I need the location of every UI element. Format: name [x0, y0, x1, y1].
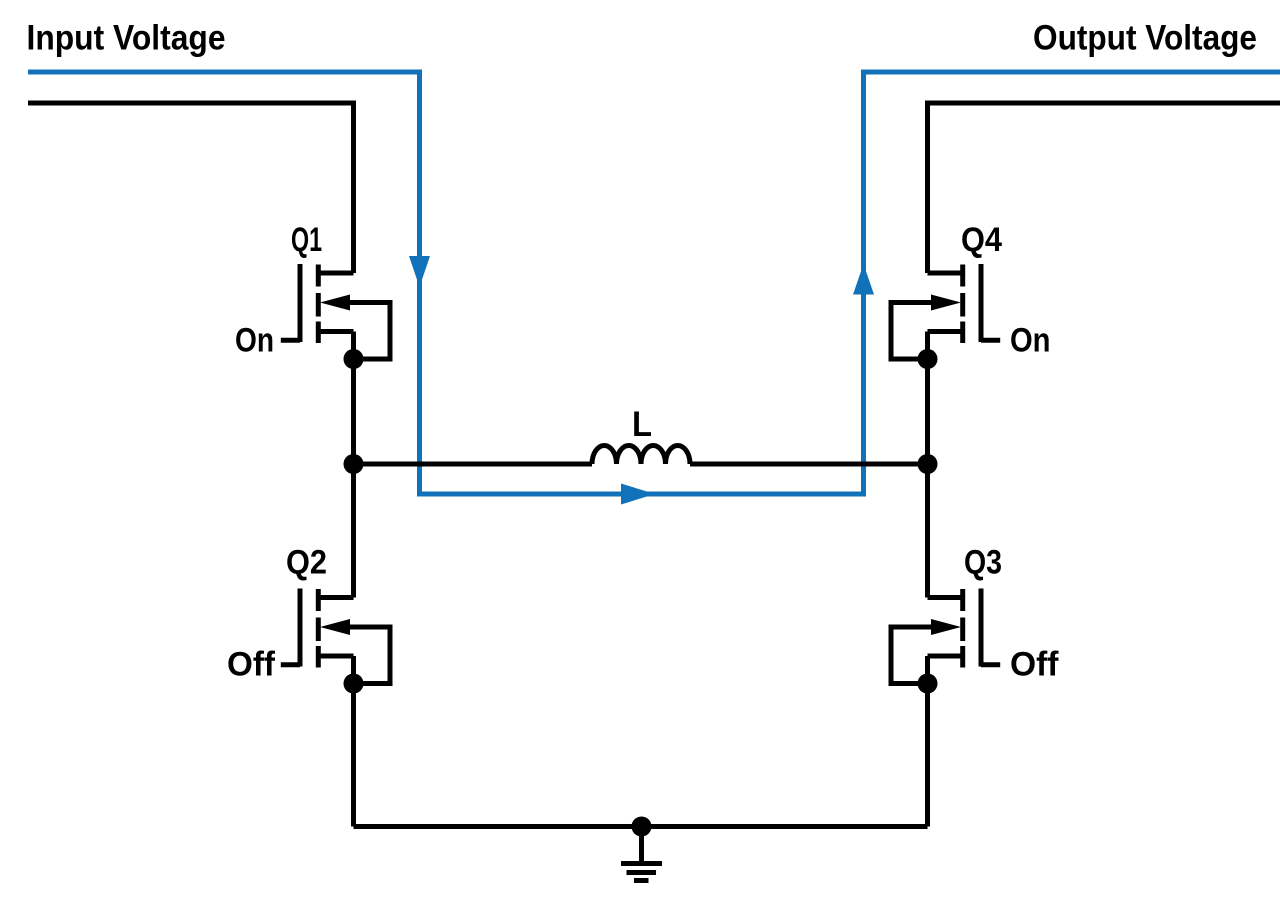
wire Q2 source to ground rail — [351, 656, 356, 827]
arrowhead current right (through inductor) — [621, 484, 655, 505]
junction node SW-right — [918, 454, 938, 474]
wire blue current path (input to output) — [28, 72, 1280, 494]
wire Q3 source to ground rail — [925, 656, 930, 827]
wire ground rail — [354, 824, 928, 829]
ground — [621, 827, 662, 881]
wire input voltage rail — [28, 103, 354, 273]
wire switch node left (Q1 source to Q2 drain) — [351, 332, 356, 598]
svg-text:Input Voltage: Input Voltage — [27, 19, 226, 58]
svg-text:Output Voltage: Output Voltage — [1033, 19, 1257, 58]
wire inductor right lead — [690, 462, 928, 467]
svg-text:On: On — [1010, 322, 1051, 360]
wire switch node right (Q4 source to Q3 drain) — [925, 332, 930, 598]
svg-text:On: On — [235, 322, 274, 360]
svg-text:Q3: Q3 — [964, 544, 1002, 582]
svg-text:Q1: Q1 — [291, 221, 322, 259]
svg-text:Off: Off — [1010, 646, 1059, 684]
transistor Q2 — [281, 589, 390, 694]
junction node SW-left — [344, 454, 364, 474]
junction node ground — [632, 817, 652, 837]
svg-text:Off: Off — [227, 646, 276, 684]
transistor Q1 — [281, 264, 390, 369]
svg-text:L: L — [632, 405, 652, 444]
wire inductor left lead — [354, 462, 593, 467]
inductor L — [592, 446, 690, 465]
arrowhead current down (left branch) — [409, 256, 430, 287]
transistor Q3 — [891, 589, 1000, 694]
transistor Q4 — [891, 264, 1000, 369]
wire output voltage rail — [928, 103, 1280, 273]
svg-text:Q2: Q2 — [286, 544, 327, 582]
arrowhead current up (right branch) — [853, 264, 874, 295]
svg-text:Q4: Q4 — [961, 221, 1002, 259]
